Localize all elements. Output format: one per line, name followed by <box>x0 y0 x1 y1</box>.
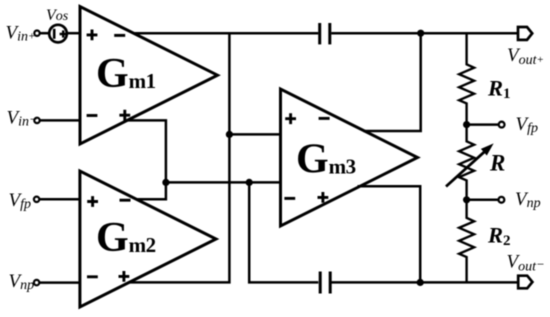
wire bottom rail right segment (capacitor to Vout- port) <box>331 281 517 284</box>
wire Vnp left to Gm2 -in <box>40 281 80 284</box>
wire vertical B (node at 249,182 down to bottom capacitor) <box>249 182 318 282</box>
wire Gm3 +in <box>229 133 280 136</box>
capacitor C2 bottom plates <box>319 272 332 294</box>
junction dot R1/R node <box>463 121 470 128</box>
svg-text:Vos: Vos <box>46 7 69 24</box>
wire Gm1 +out down to Gm2 -out (vertical at x=165.9) <box>127 120 166 199</box>
terminal Vin- <box>34 118 39 123</box>
wire top rail right segment (capacitor to Vout+ port) <box>331 32 517 35</box>
junction dot top rail / Gm3 -out <box>417 30 424 37</box>
terminal Vfp left <box>34 197 39 202</box>
Gm3 polarity marks <box>284 113 329 203</box>
op-amp U3 Gm3 triangle <box>281 89 418 226</box>
terminal Vnp left <box>34 280 39 285</box>
junction dot vertical B top <box>246 179 253 186</box>
op-amp U1 Gm1 triangle <box>80 7 218 145</box>
wire Vnp right stub <box>467 199 499 202</box>
wire Vfp left to Gm2 +in <box>40 198 80 201</box>
junction dot Gm1+out/Gm2-out node <box>162 179 169 186</box>
wire Vfp right stub <box>467 123 499 126</box>
junction dot R/R2 node <box>463 196 470 203</box>
svg-text:R: R <box>489 151 505 176</box>
junction dot Gm3 +in tap <box>226 131 233 138</box>
terminal Vnp right <box>499 197 505 203</box>
resistor R1 with leads <box>459 33 474 124</box>
wire Vin+ terminal to Vos source <box>40 32 48 35</box>
junction dot bottom rail / Gm3 +out <box>417 279 424 286</box>
variable resistor arrow <box>446 144 493 186</box>
Gm2 polarity marks <box>87 196 131 282</box>
Gm1 polarity marks <box>87 30 131 121</box>
wire Gm3 -in <box>166 181 281 184</box>
op-amp U2 Gm2 triangle <box>80 171 216 307</box>
voltage source Vos circle <box>49 25 67 43</box>
wire Vos source to Gm1 +in <box>67 32 80 35</box>
resistor R2 with leads <box>459 200 474 282</box>
port Vout+ <box>518 27 532 40</box>
wire Gm3 +out to bottom rail <box>358 186 421 282</box>
wire Vin- to Gm1 -in <box>40 119 80 122</box>
terminal Vin+ <box>34 31 39 36</box>
capacitor C1 top plates <box>318 23 331 44</box>
resistor R variable with leads <box>459 125 474 200</box>
wire top rail left segment (Gm1 -out to top capacitor) <box>134 32 319 35</box>
wire Gm3 -out to top rail <box>364 33 421 131</box>
wire node A vertical (top rail to Gm2 +out) <box>129 33 230 282</box>
port Vout- <box>518 276 532 289</box>
terminal Vfp right <box>499 122 505 128</box>
